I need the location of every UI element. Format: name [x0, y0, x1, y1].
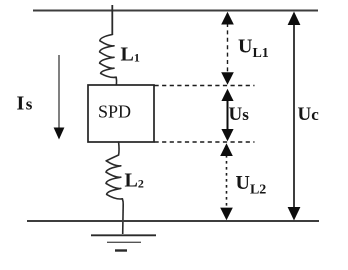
svg-text:SPD: SPD — [98, 102, 131, 122]
dimension arrow UL1 — [221, 12, 234, 85]
inductor L1 — [100, 35, 117, 86]
inductor L2 — [106, 161, 123, 205]
svg-text:Uc: Uc — [298, 104, 320, 125]
svg-text:Us: Us — [229, 104, 250, 125]
wire: L2 to bottom bus and ground stem — [122, 205, 125, 235]
svg-text:Is: Is — [17, 93, 34, 115]
top bus wire — [33, 10, 318, 12]
ground — [91, 235, 156, 250]
dashed node line: SPD bottom level — [155, 141, 255, 143]
wire: SPD bottom to L2 — [106, 142, 119, 161]
dashed node line: SPD top level — [155, 85, 255, 87]
SPD box U1 — [88, 85, 154, 142]
dimension arrow Us — [221, 89, 233, 141]
dimension arrow UL2 — [220, 143, 233, 220]
current source arrow Is — [54, 55, 65, 140]
bottom bus wire — [27, 220, 319, 222]
wire: junction tick through top bus down to L1 — [111, 5, 113, 35]
dimension arrow Uc — [288, 12, 301, 221]
